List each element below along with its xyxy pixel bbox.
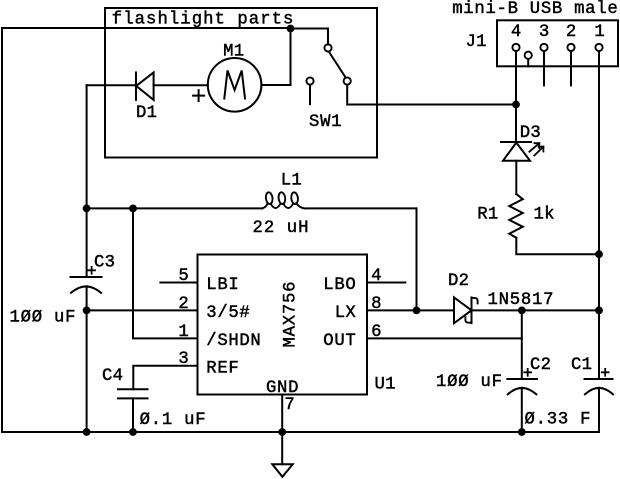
svg-text:J1: J1 [466,33,487,52]
svg-text:MAX756: MAX756 [282,282,301,348]
svg-text:1: 1 [178,323,188,342]
svg-text:M1: M1 [223,42,244,61]
svg-text:D2: D2 [448,272,469,291]
svg-text:3: 3 [539,23,549,42]
svg-text:6: 6 [371,323,381,342]
svg-text:LX: LX [335,304,357,323]
svg-text:3/5#: 3/5# [206,304,250,323]
svg-text:7: 7 [284,396,294,415]
svg-text:1k: 1k [534,205,555,224]
svg-text:C2: C2 [530,356,551,375]
svg-text:1ØØ uF: 1ØØ uF [436,373,502,392]
svg-text:3: 3 [178,350,188,369]
svg-text:22 uH: 22 uH [253,219,309,238]
svg-text:5: 5 [178,267,188,286]
svg-text:1: 1 [594,23,604,42]
svg-text:2: 2 [178,295,188,314]
svg-text:SW1: SW1 [309,113,342,132]
svg-text:1N5817: 1N5817 [488,291,554,310]
svg-text:OUT: OUT [323,332,356,351]
svg-text:C1: C1 [571,356,592,375]
svg-text:1ØØ uF: 1ØØ uF [10,308,76,327]
svg-text:flashlight parts: flashlight parts [112,10,294,29]
svg-text:D3: D3 [520,124,541,143]
svg-text:4: 4 [511,23,521,42]
svg-text:/SHDN: /SHDN [206,332,260,351]
svg-text:LBI: LBI [206,276,239,295]
svg-text:LBO: LBO [323,276,356,295]
svg-text:R1: R1 [477,205,498,224]
svg-text:REF: REF [206,359,239,378]
svg-text:Ø.33 F: Ø.33 F [525,410,591,429]
svg-text:4: 4 [371,267,381,286]
svg-text:Ø.1 uF: Ø.1 uF [140,411,206,430]
svg-text:2: 2 [566,23,576,42]
svg-text:D1: D1 [136,104,157,123]
svg-text:L1: L1 [281,171,302,190]
svg-text:C3: C3 [94,254,115,273]
svg-text:mini-B USB male: mini-B USB male [452,0,618,19]
svg-text:C4: C4 [102,367,123,386]
svg-text:U1: U1 [375,375,396,394]
svg-text:8: 8 [371,295,381,314]
